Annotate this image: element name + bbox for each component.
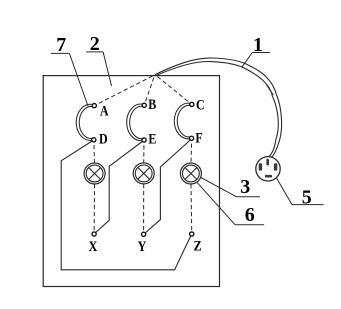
svg-text:6: 6 [245,204,255,226]
svg-text:D: D [99,130,108,147]
svg-text:F: F [195,129,202,146]
svg-text:B: B [148,96,156,113]
svg-text:E: E [148,130,156,147]
svg-text:C: C [196,96,205,113]
svg-text:5: 5 [302,187,312,209]
svg-text:X: X [89,238,98,255]
svg-text:Z: Z [194,237,202,254]
svg-text:Y: Y [138,238,147,255]
svg-text:1: 1 [253,34,263,56]
svg-text:2: 2 [90,33,100,55]
svg-text:A: A [100,102,109,119]
svg-text:3: 3 [240,176,250,198]
svg-text:7: 7 [56,34,66,56]
